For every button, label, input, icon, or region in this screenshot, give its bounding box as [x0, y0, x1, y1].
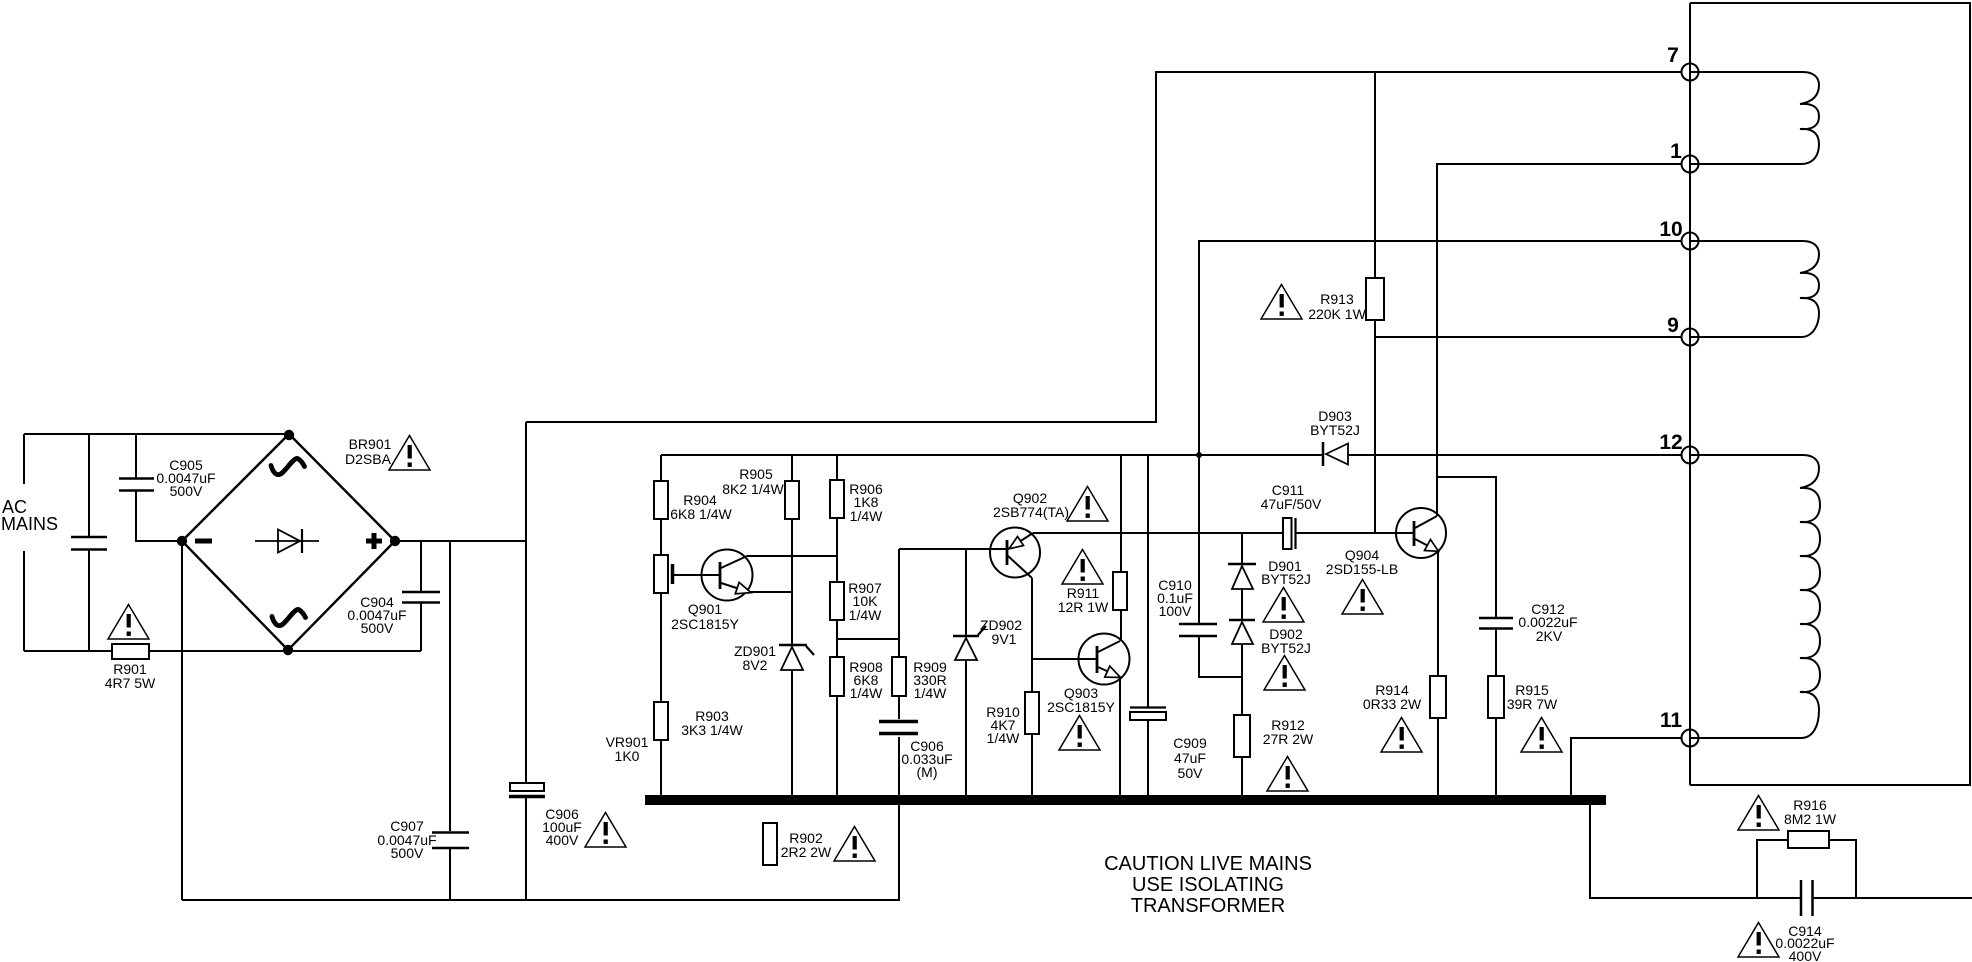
wire AC line 1 stub: [23, 434, 25, 484]
node bridge bottom AC: [283, 645, 293, 655]
wire ZD901 to ground bus: [791, 671, 793, 795]
svg-text:47uF: 47uF: [1174, 750, 1206, 766]
wire R914 to ground bus: [1437, 718, 1439, 795]
wire R909 to C906: [898, 696, 900, 719]
wire AC line 2 stub: [23, 551, 25, 651]
wire Q902 collector to Q903 base: [1032, 578, 1096, 659]
warning C906: [585, 813, 626, 848]
svg-text:500V: 500V: [361, 620, 394, 636]
svg-text:8K2 1/4W: 8K2 1/4W: [722, 481, 784, 497]
wire Q902 emitter to C911: [1033, 532, 1283, 534]
svg-text:1K0: 1K0: [615, 748, 640, 764]
svg-text:220K 1W: 220K 1W: [1308, 306, 1366, 322]
wire pin 1 to Q904 collector: [1437, 164, 1682, 516]
wire R909 top lead from base node: [898, 549, 900, 657]
svg-text:2KV: 2KV: [1536, 628, 1563, 644]
wire C912 to R915: [1495, 628, 1497, 676]
wire C906 bottom through bus to 0V rail: [898, 737, 900, 900]
svg-text:(M): (M): [917, 764, 938, 780]
svg-text:R905: R905: [739, 466, 773, 482]
diode D903: [1323, 442, 1348, 466]
warning R916: [1738, 796, 1779, 831]
resistor R904: [654, 481, 668, 519]
svg-text:2R2 2W: 2R2 2W: [781, 844, 832, 860]
wire C907 branch upper: [449, 541, 451, 831]
warning Q902: [1067, 487, 1108, 522]
potentiometer VR901: [654, 555, 668, 593]
wire B+ top rail to pin 7: [526, 72, 1682, 422]
wire ZD902 top lead: [965, 549, 967, 635]
resistor R912: [1234, 715, 1250, 757]
wire R911 to Q903 collector: [1120, 610, 1122, 641]
wire AC line 1 to bridge top: [24, 433, 289, 435]
bridge AC sine mark lower: [272, 609, 306, 625]
resistor R914: [1430, 676, 1446, 718]
wire ZD902 to ground bus: [965, 661, 967, 795]
resistor R901: [112, 644, 149, 659]
wire bridge minus drop to 0V rail: [181, 541, 183, 900]
wire R910 to ground bus: [1031, 734, 1033, 795]
diode D902: [1229, 620, 1255, 644]
bridge minus sign: [195, 539, 212, 544]
svg-text:50V: 50V: [1178, 765, 1204, 781]
wire ground bus to isolated return: [1590, 805, 1800, 898]
transformer winding 12-11: [1690, 455, 1820, 738]
warning BR901: [389, 436, 430, 471]
capacitor C909: [1130, 708, 1166, 721]
transformer pin 11 terminal: [1682, 730, 1699, 747]
wire D903 to pin 12: [1348, 454, 1682, 456]
wire R906 to R907: [836, 518, 838, 582]
wire VR901 wiper bar: [671, 564, 675, 584]
wire VR901 wiper to Q901 base: [673, 574, 719, 576]
wire R906 top lead: [836, 455, 838, 480]
wire D901 to D902: [1241, 589, 1243, 619]
wire isolated return right of C914: [1813, 897, 1972, 899]
capacitor C914: [1801, 880, 1813, 916]
wire C911 to Q904 base: [1296, 532, 1414, 534]
svg-text:CAUTION LIVE MAINS: CAUTION LIVE MAINS: [1104, 853, 1312, 875]
svg-text:USE ISOLATING: USE ISOLATING: [1132, 874, 1284, 896]
warning D902: [1264, 656, 1305, 691]
svg-text:1/4W: 1/4W: [850, 508, 883, 524]
wire R905 top lead: [791, 455, 793, 481]
svg-text:500V: 500V: [391, 845, 424, 861]
bridge rectifier BR901 diamond: [182, 434, 395, 650]
svg-text:2SC1815Y: 2SC1815Y: [671, 616, 739, 632]
capacitor C907: [432, 833, 469, 849]
svg-text:11: 11: [1660, 709, 1683, 732]
wire left frame R904/VR901/R903 column: [660, 455, 662, 795]
wire R907 to R908: [836, 620, 838, 657]
wire bridge plus output: [395, 540, 526, 542]
zener ZD902: [953, 626, 986, 660]
wire pin 9: [1375, 336, 1682, 338]
wire C905 to bridge minus: [136, 491, 182, 541]
warning R914: [1381, 718, 1422, 753]
wire R913 line upper: [1374, 72, 1376, 278]
wire pin 11 to ground bus: [1571, 738, 1682, 795]
wire transformer pin line: [1689, 3, 1691, 785]
wire D902 to R912: [1241, 645, 1243, 715]
warning Q904: [1342, 580, 1383, 615]
bridge AC sine mark upper: [271, 458, 305, 474]
capacitor C905: [119, 479, 154, 491]
svg-text:12: 12: [1659, 431, 1682, 454]
wire Q901 collector to R907 node: [747, 555, 837, 557]
wire R916 right lead: [1829, 840, 1856, 898]
wire R907/R909 junction link: [837, 638, 899, 640]
wire R912 to ground bus: [1241, 757, 1243, 795]
svg-text:BYT52J: BYT52J: [1310, 422, 1360, 438]
wire Q903 emitter to ground bus: [1119, 677, 1121, 795]
capacitor across AC lines: [71, 537, 107, 550]
wire secondary rail left of D903: [661, 454, 1324, 456]
capacitor C904: [402, 592, 440, 603]
wire R913 line lower to Q904 base node: [1374, 320, 1376, 533]
svg-text:12R 1W: 12R 1W: [1058, 599, 1109, 615]
svg-text:1/4W: 1/4W: [850, 685, 883, 701]
resistor R913: [1366, 278, 1384, 320]
capacitor C906 100uF reservoir: [509, 783, 545, 797]
svg-text:Q901: Q901: [688, 601, 722, 617]
svg-text:6K8 1/4W: 6K8 1/4W: [670, 506, 732, 522]
capacitor C906 0.033uF: [879, 722, 918, 734]
transformer pin 1 terminal: [1682, 156, 1699, 173]
svg-text:D2SBA: D2SBA: [345, 451, 392, 467]
transformer pin 9 terminal: [1682, 329, 1699, 346]
wire D901 top lead: [1241, 533, 1243, 563]
wire R905 bottom to ZD901: [791, 519, 793, 644]
wire R910 top lead: [1031, 659, 1033, 692]
transformer pin 12 terminal: [1682, 447, 1699, 464]
svg-text:400V: 400V: [1789, 948, 1822, 962]
wire C904 branch upper: [420, 541, 422, 591]
warning Q903: [1059, 716, 1100, 751]
transistor Q904: [1396, 508, 1446, 558]
wire R908 to ground bus: [836, 696, 838, 795]
resistor R911: [1113, 572, 1127, 610]
wire C907 branch lower: [449, 849, 451, 900]
svg-text:MAINS: MAINS: [1, 514, 58, 534]
transistor Q902: [990, 528, 1040, 579]
svg-text:4R7 5W: 4R7 5W: [105, 675, 156, 691]
warning R902: [834, 827, 875, 862]
svg-text:1/4W: 1/4W: [849, 607, 882, 623]
zener ZD901: [779, 645, 814, 670]
wire C905 branch: [135, 434, 137, 478]
resistor R910: [1025, 692, 1039, 734]
node junction secondary rail / pin10 line: [1196, 452, 1202, 458]
svg-text:2SD155-LB: 2SD155-LB: [1326, 561, 1398, 577]
ground bus bar: [645, 795, 1606, 805]
wire C909 top lead: [1147, 455, 1149, 707]
resistor R915: [1488, 676, 1504, 718]
wire reservoir cap to 0V rail: [525, 798, 527, 900]
resistor R903: [654, 702, 668, 740]
transformer winding 7-1: [1690, 72, 1819, 164]
svg-text:8M2 1W: 8M2 1W: [1784, 811, 1837, 827]
wire R916 left lead: [1757, 840, 1788, 898]
wire R911 top lead: [1120, 455, 1122, 572]
resistor R909: [892, 657, 906, 696]
resistor R906: [830, 480, 844, 518]
wire R915 to ground bus: [1495, 718, 1497, 795]
transformer pin 7 terminal: [1682, 64, 1699, 81]
svg-text:C909: C909: [1173, 735, 1207, 751]
wire transformer outline: [1690, 3, 1970, 785]
diode D901: [1228, 564, 1256, 589]
svg-text:39R 7W: 39R 7W: [1507, 696, 1558, 712]
wire 0V bottom rail: [182, 805, 899, 900]
transformer pin 10 terminal: [1682, 233, 1699, 250]
capacitor C911: [1283, 518, 1296, 549]
node bridge top AC: [284, 430, 294, 440]
wire branch to C912: [1437, 477, 1496, 617]
resistor R902: [763, 823, 777, 865]
capacitor C912: [1479, 618, 1513, 629]
svg-text:400V: 400V: [546, 832, 579, 848]
warning R912: [1267, 757, 1308, 792]
capacitor C910: [1179, 624, 1217, 636]
transistor Q901: [702, 550, 753, 601]
wire B+ vertical with reservoir cap: [525, 422, 527, 783]
svg-text:500V: 500V: [170, 483, 203, 499]
svg-text:BYT52J: BYT52J: [1261, 571, 1311, 587]
svg-text:1/4W: 1/4W: [914, 685, 947, 701]
svg-text:27R 2W: 27R 2W: [1263, 731, 1314, 747]
wire Q901 emitter to R905/ZD901 node: [749, 591, 792, 593]
transformer winding 10-9: [1690, 241, 1819, 337]
svg-text:10: 10: [1659, 218, 1682, 241]
wire AC line 2 through R901 to bridge AC node: [24, 650, 421, 652]
node bridge minus: [177, 536, 187, 546]
svg-text:2SC1815Y: 2SC1815Y: [1047, 699, 1115, 715]
svg-text:2SB774(TA): 2SB774(TA): [993, 504, 1069, 520]
svg-text:1/4W: 1/4W: [987, 730, 1020, 746]
wire X-cap branch lower: [88, 550, 90, 651]
warning D901: [1263, 588, 1304, 623]
warning R913: [1261, 285, 1302, 320]
wire C910 bottom to D902/R912 node: [1199, 637, 1242, 677]
warning R915: [1521, 718, 1562, 753]
resistor R908: [830, 657, 844, 696]
svg-text:TRANSFORMER: TRANSFORMER: [1131, 895, 1285, 917]
resistor R916: [1788, 831, 1829, 848]
svg-text:8V2: 8V2: [743, 657, 768, 673]
wire C909 to ground bus: [1147, 721, 1149, 795]
wire pin 10 to C910: [1199, 241, 1682, 623]
svg-text:47uF/50V: 47uF/50V: [1261, 496, 1322, 512]
svg-text:0R33 2W: 0R33 2W: [1363, 696, 1422, 712]
warning C914: [1738, 923, 1779, 958]
svg-text:BR901: BR901: [349, 436, 392, 452]
bridge plus sign: [366, 533, 382, 549]
svg-text:9V1: 9V1: [992, 631, 1017, 647]
svg-text:R913: R913: [1320, 291, 1354, 307]
warning R911: [1062, 550, 1103, 585]
svg-text:100V: 100V: [1159, 603, 1192, 619]
svg-text:3K3 1/4W: 3K3 1/4W: [681, 722, 743, 738]
bridge internal diode symbol: [255, 529, 319, 553]
wire C904 branch lower: [420, 603, 422, 651]
svg-text:7: 7: [1667, 44, 1679, 67]
svg-text:BYT52J: BYT52J: [1261, 640, 1311, 656]
wire Q904 emitter to R914: [1437, 552, 1439, 676]
svg-text:9: 9: [1667, 314, 1679, 337]
transistor Q903: [1079, 634, 1130, 685]
node bridge plus: [390, 536, 400, 546]
wire base node to Q902 base: [899, 548, 1007, 550]
resistor R905: [785, 481, 799, 519]
svg-text:1: 1: [1670, 140, 1682, 163]
resistor R907: [830, 582, 844, 620]
wire X-cap branch upper: [88, 434, 90, 536]
warning R901: [108, 605, 149, 640]
